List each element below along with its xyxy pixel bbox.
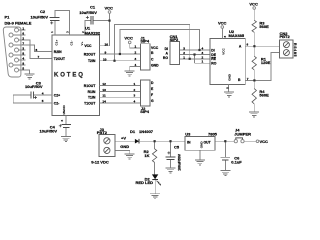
svg-text:RED LED: RED LED — [136, 180, 154, 185]
svg-text:3: 3 — [183, 47, 185, 51]
svg-text:6: 6 — [247, 43, 249, 47]
svg-text:T2OUT: T2OUT — [54, 57, 66, 61]
svg-text:6: 6 — [22, 32, 24, 36]
svg-text:12: 12 — [102, 82, 106, 86]
svg-text:U3: U3 — [185, 131, 191, 136]
svg-text:GND: GND — [199, 141, 203, 149]
svg-text:120E: 120E — [261, 60, 271, 65]
svg-text:T1IN: T1IN — [88, 96, 96, 100]
svg-text:MAX232: MAX232 — [85, 30, 101, 35]
svg-text:5: 5 — [225, 87, 229, 89]
svg-text:R2OUT: R2OUT — [84, 53, 96, 57]
svg-text:GND: GND — [151, 64, 159, 68]
svg-text:IN: IN — [187, 141, 191, 145]
svg-text:2: 2 — [81, 31, 85, 33]
svg-text:+V: +V — [121, 135, 126, 140]
svg-text:7805: 7805 — [208, 131, 218, 136]
svg-text:13: 13 — [102, 88, 106, 92]
svg-text:C2+: C2+ — [54, 94, 60, 98]
svg-text:RO: RO — [211, 62, 216, 66]
svg-text:1: 1 — [135, 45, 137, 49]
svg-text:1: 1 — [22, 27, 24, 31]
svg-text:9-12 VDC: 9-12 VDC — [91, 160, 109, 165]
svg-text:DB-9 FEMALE: DB-9 FEMALE — [5, 21, 32, 26]
svg-text:9: 9 — [22, 62, 24, 66]
svg-text:VCC: VCC — [105, 5, 114, 10]
svg-text:1: 1 — [134, 82, 136, 86]
svg-text:VCC: VCC — [249, 2, 258, 7]
svg-text:SIP4: SIP4 — [140, 109, 149, 114]
svg-text:P1: P1 — [5, 15, 11, 20]
svg-text:100uF/50V: 100uF/50V — [177, 153, 181, 171]
svg-text:560E: 560E — [259, 92, 269, 97]
svg-text:8: 8 — [36, 48, 38, 52]
svg-text:14: 14 — [102, 100, 106, 104]
svg-text:R1IN: R1IN — [88, 90, 96, 94]
svg-text:D1: D1 — [130, 129, 136, 134]
svg-text:8: 8 — [22, 52, 24, 56]
svg-text:1K: 1K — [144, 153, 149, 158]
svg-text:1: 1 — [183, 55, 185, 59]
svg-text:7: 7 — [38, 55, 40, 59]
svg-text:2: 2 — [135, 51, 137, 55]
svg-text:1: 1 — [201, 60, 203, 64]
svg-text:560E: 560E — [259, 24, 269, 29]
svg-text:2: 2 — [22, 37, 24, 41]
svg-text:9: 9 — [105, 51, 107, 55]
svg-text:15: 15 — [62, 111, 66, 115]
svg-text:C2: C2 — [40, 9, 46, 14]
svg-text:VCC: VCC — [124, 35, 133, 40]
svg-text:3: 3 — [22, 47, 24, 51]
svg-text:8: 8 — [223, 36, 227, 38]
svg-text:PBT2: PBT2 — [97, 130, 108, 135]
svg-text:C1-: C1- — [70, 41, 74, 46]
svg-text:R1OUT: R1OUT — [84, 84, 96, 88]
svg-text:KOTEQ: KOTEQ — [54, 73, 85, 79]
svg-text:G: G — [151, 99, 154, 103]
svg-text:VCC: VCC — [221, 48, 225, 55]
svg-text:4: 4 — [135, 63, 137, 67]
svg-text:10: 10 — [103, 57, 107, 61]
svg-text:16: 16 — [105, 42, 109, 46]
svg-text:4: 4 — [22, 57, 24, 61]
svg-text:VCC: VCC — [260, 139, 269, 144]
svg-text:GND: GND — [120, 144, 129, 149]
svg-text:JUMPER: JUMPER — [234, 131, 251, 136]
svg-text:4: 4 — [134, 100, 136, 104]
svg-text:10uF/50V: 10uF/50V — [40, 128, 58, 133]
svg-text:DI: DI — [211, 48, 214, 52]
svg-text:10uF/50V: 10uF/50V — [25, 84, 43, 89]
svg-text:C1+: C1+ — [55, 40, 59, 46]
svg-text:F: F — [151, 93, 153, 97]
svg-text:RO: RO — [163, 56, 168, 60]
svg-text:SIP2: SIP2 — [170, 37, 179, 42]
svg-text:VCC: VCC — [218, 20, 227, 25]
svg-text:11: 11 — [102, 94, 106, 98]
svg-text:VCC: VCC — [151, 46, 159, 50]
svg-text:C5: C5 — [174, 145, 180, 150]
svg-text:GND: GND — [62, 105, 66, 113]
svg-text:2: 2 — [134, 88, 136, 92]
svg-text:4: 4 — [42, 92, 44, 96]
svg-text:3: 3 — [66, 31, 70, 33]
svg-text:DI: DI — [165, 47, 168, 51]
svg-text:10uF/50V: 10uF/50V — [79, 10, 97, 15]
svg-text:VCC: VCC — [84, 44, 92, 48]
svg-text:R2IN: R2IN — [54, 50, 62, 54]
svg-text:C2-: C2- — [54, 101, 59, 105]
svg-text:T1OUT: T1OUT — [84, 102, 96, 106]
svg-text:0.1uF: 0.1uF — [231, 159, 242, 164]
svg-text:5: 5 — [42, 99, 44, 103]
svg-text:SIP4: SIP4 — [140, 39, 149, 44]
svg-text:RE: RE — [211, 57, 216, 61]
svg-text:V+: V+ — [80, 41, 84, 45]
svg-text:GND: GND — [227, 73, 231, 81]
svg-text:5: 5 — [22, 67, 24, 71]
svg-text:1: 1 — [50, 31, 54, 33]
svg-text:2: 2 — [201, 55, 203, 59]
svg-text:4: 4 — [201, 47, 203, 51]
svg-text:3: 3 — [135, 57, 137, 61]
svg-text:10uF/50V: 10uF/50V — [31, 15, 49, 20]
svg-text:RS485: RS485 — [293, 43, 297, 57]
svg-text:T2IN: T2IN — [88, 59, 96, 63]
svg-text:6: 6 — [60, 120, 64, 122]
svg-text:MAX485: MAX485 — [229, 33, 245, 38]
svg-text:1N4007: 1N4007 — [139, 129, 154, 134]
svg-text:PBT2: PBT2 — [280, 34, 291, 39]
svg-text:OUT: OUT — [204, 141, 212, 145]
svg-text:7: 7 — [22, 42, 24, 46]
svg-text:7: 7 — [247, 77, 249, 81]
svg-text:3: 3 — [134, 94, 136, 98]
